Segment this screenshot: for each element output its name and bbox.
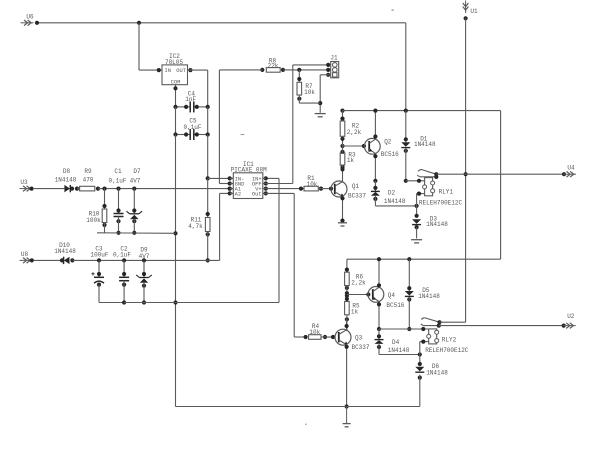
wire J1 pin1 to IC1 OFF: [266, 65, 293, 184]
transistor Q1 BC337: [331, 181, 366, 200]
transistor Q2 BC516: [364, 138, 399, 157]
svg-text:Q4: Q4: [388, 292, 396, 299]
wire U8 row to A2: [72, 193, 233, 262]
wire C1/D7 bottom rail: [97, 232, 176, 235]
svg-text:J1: J1: [330, 55, 338, 62]
diode D8 1N4148: [55, 168, 79, 192]
wire RLY1 common to U4: [436, 172, 566, 176]
connector U4: [563, 165, 576, 177]
zener diode D7 4V7: [127, 168, 143, 235]
zener diode D9 4V7: [136, 246, 152, 304]
capacitor C1 0,1uF: [108, 168, 126, 235]
resistor R9 470: [77, 168, 100, 191]
svg-text:4V7: 4V7: [139, 253, 150, 260]
svg-text:4,7k: 4,7k: [188, 223, 203, 230]
diode D3 1N4148: [412, 214, 448, 239]
diode D6 1N4148: [415, 362, 448, 407]
transistor Q3 BC337: [335, 329, 370, 351]
svg-text:0,1uF: 0,1uF: [183, 124, 201, 131]
svg-text:RLY2: RLY2: [442, 337, 457, 344]
ground at Q1: [338, 223, 347, 226]
capacitor C4 1nF: [173, 90, 209, 112]
ground at J1/R7: [315, 114, 326, 117]
capacitor C3 100uF: [90, 245, 124, 302]
wire U3 row to IC1 A1: [98, 187, 233, 191]
wire bottom ground rail: [176, 406, 420, 408]
svg-text:D7: D7: [133, 168, 141, 175]
relay RLY1 RELEH700E12C: [417, 169, 462, 206]
svg-text:BC337: BC337: [348, 193, 366, 200]
wire IC2 OUT: [188, 68, 208, 107]
svg-text:10k: 10k: [304, 89, 315, 96]
wire Q1 collector: [340, 165, 344, 182]
voltage regulator IC2 78L05: [162, 53, 188, 85]
wire RLY2 common to U1: [440, 321, 466, 323]
wire C4-C5 left: [175, 107, 177, 135]
wire C5 to IC1 IN-: [206, 135, 234, 181]
svg-text:BC337: BC337: [351, 344, 369, 351]
svg-text:1N4148: 1N4148: [418, 293, 440, 300]
wire RLY2 coil bottom: [420, 340, 429, 365]
connector U1: [463, 1, 478, 16]
resistor R8 22k: [219, 57, 285, 72]
svg-text:1k: 1k: [347, 157, 355, 164]
svg-text:1N4148: 1N4148: [388, 347, 410, 354]
wire U6 to IC2 IN: [139, 23, 162, 72]
wire RLY2 coil top: [379, 327, 429, 331]
diode D4 1N4148: [375, 329, 422, 357]
wire R8 to J1 pin2: [283, 68, 331, 72]
svg-text:D2: D2: [388, 190, 396, 197]
wire lower filter rail: [124, 178, 279, 302]
svg-text:1k: 1k: [351, 308, 359, 315]
wire Q3 emitter: [345, 345, 349, 409]
wire U6 net: [35, 21, 406, 111]
microcontroller IC1 PICAXE 08M: [228, 161, 268, 199]
wire R2/R3 base node: [340, 139, 366, 153]
svg-text:IN: IN: [165, 68, 171, 74]
ground at bottom rail: [343, 407, 351, 427]
svg-text:4V7: 4V7: [130, 177, 141, 184]
wire Q4 collector: [377, 257, 381, 287]
svg-text:RELEH700E12C: RELEH700E12C: [419, 199, 463, 206]
speck: [241, 134, 245, 135]
svg-text:A2: A2: [235, 191, 241, 197]
svg-text:D4: D4: [392, 339, 400, 346]
resistor R3 1k: [340, 150, 356, 167]
connector U2: [563, 313, 576, 328]
wire Q2 emitter: [373, 153, 377, 183]
wire Q3 collector: [345, 319, 349, 330]
svg-text:BC516: BC516: [381, 151, 399, 158]
svg-text:2,2k: 2,2k: [351, 279, 366, 286]
wire RLY1 coil bottom: [417, 192, 425, 216]
resistor R4 10k: [304, 323, 336, 339]
wire IC2 COM: [173, 85, 177, 107]
resistor R5 1k: [345, 297, 360, 331]
wire IC1 OFF stub: [266, 183, 270, 185]
wire Q1 emitter: [340, 196, 344, 223]
svg-text:U8: U8: [21, 251, 29, 258]
svg-text:100uF: 100uF: [90, 252, 108, 259]
diode D10 1N4148: [54, 242, 76, 264]
svg-text:470: 470: [83, 176, 94, 183]
svg-text:1N4148: 1N4148: [414, 141, 436, 148]
svg-text:1N4148: 1N4148: [55, 176, 77, 183]
wire IN+ to rail: [266, 177, 279, 179]
wire COM ground vertical: [173, 135, 177, 407]
diode D1 1N4148: [401, 109, 436, 183]
svg-text:U4: U4: [567, 165, 575, 172]
wire lower section rail: [347, 259, 501, 272]
wire RLY1 coil top: [406, 179, 425, 183]
svg-text:U1: U1: [470, 8, 478, 15]
wire R6/R5 base node: [345, 286, 371, 302]
speck: [305, 424, 307, 425]
svg-text:1N4148: 1N4148: [54, 248, 76, 255]
wire IC1 Out to R4: [266, 193, 306, 337]
svg-text:C1: C1: [114, 168, 122, 175]
wire Q4 emitter: [377, 302, 381, 332]
svg-text:BC516: BC516: [386, 302, 404, 309]
svg-text:COM: COM: [171, 79, 181, 85]
wire RLY2 NO to U2: [439, 324, 566, 328]
wire J1 pin3: [318, 73, 331, 113]
svg-text:1N4148: 1N4148: [426, 221, 448, 228]
wire U3 row: [30, 187, 65, 191]
speck: [392, 9, 394, 11]
connector U3: [20, 179, 33, 191]
relay RLY2 RELEH700E12C: [421, 318, 469, 354]
svg-text:U2: U2: [567, 313, 575, 320]
connector U6: [21, 14, 34, 26]
diode D5 1N4148: [405, 257, 440, 331]
wire J1 pin1: [293, 63, 331, 67]
svg-text:Out: Out: [252, 191, 262, 197]
wire top rail: [343, 111, 501, 260]
resistor R2 2,2k: [340, 109, 361, 141]
wire U8 row: [30, 258, 64, 262]
wire U1 vertical: [464, 16, 468, 322]
ground at D3: [411, 240, 422, 243]
resistor R10 100k: [86, 189, 107, 233]
resistor R1 10k: [266, 175, 333, 191]
svg-text:Q2: Q2: [384, 139, 392, 146]
svg-text:R9: R9: [84, 168, 92, 175]
svg-text:RLY1: RLY1: [439, 188, 454, 195]
svg-text:U6: U6: [26, 14, 34, 21]
svg-text:Q1: Q1: [352, 183, 360, 190]
svg-text:1N4148: 1N4148: [426, 370, 448, 377]
svg-text:Q3: Q3: [355, 334, 363, 341]
capacitor C5 0,1uF: [173, 118, 209, 140]
svg-text:2,2k: 2,2k: [347, 129, 362, 136]
resistor R6 2,2k: [345, 268, 366, 291]
svg-text:0,1uF: 0,1uF: [113, 252, 131, 259]
wire C4-C5 right: [207, 107, 209, 135]
resistor R7 10k: [297, 70, 320, 103]
resistor R11 4,7k: [188, 178, 210, 262]
diode D2 1N4148: [371, 181, 419, 208]
svg-text:0,1uF: 0,1uF: [108, 177, 126, 184]
capacitor C2 0,1uF: [113, 245, 131, 304]
svg-text:RELEH700E12C: RELEH700E12C: [425, 347, 469, 354]
connector J1: [330, 55, 338, 78]
svg-text:D8: D8: [63, 168, 71, 175]
wire Q2 collector: [373, 109, 377, 140]
svg-text:U3: U3: [20, 179, 28, 186]
transistor Q4 BC516: [368, 287, 405, 310]
connector U8: [20, 251, 33, 263]
svg-text:100k: 100k: [86, 217, 101, 224]
svg-text:OUT: OUT: [176, 68, 186, 74]
wire R8 to IC1 GND: [219, 70, 233, 184]
svg-text:1N4148: 1N4148: [384, 198, 406, 205]
